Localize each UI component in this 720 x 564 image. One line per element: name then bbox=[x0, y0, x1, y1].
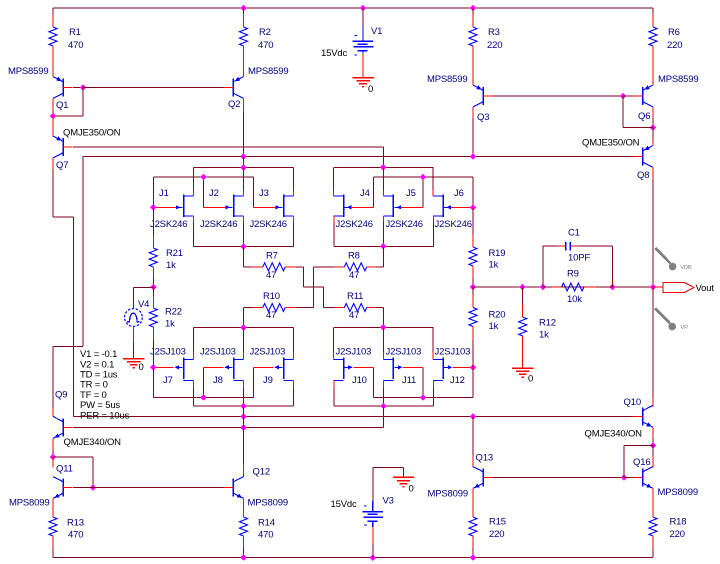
svg-text:220: 220 bbox=[667, 40, 682, 51]
JFET J11 J2SJ103 (mirrored) bbox=[392, 358, 394, 380]
transistor Q13 MPS8099 bbox=[472, 416, 474, 455]
svg-text:MPS8599: MPS8599 bbox=[427, 74, 467, 85]
node left source bus / R7 bbox=[240, 243, 247, 250]
resistor R14 470 bbox=[240, 517, 248, 536]
resistor R22 1k bbox=[152, 287, 154, 296]
svg-text:R12: R12 bbox=[539, 318, 556, 329]
wire J7 drain riser bbox=[193, 352, 195, 359]
svg-text:R19: R19 bbox=[489, 248, 506, 259]
svg-text:10PF: 10PF bbox=[568, 253, 590, 264]
svg-text:R13: R13 bbox=[67, 518, 84, 529]
wire J11 drain riser bbox=[382, 352, 384, 359]
node right P gate bus J11 riser bbox=[420, 394, 427, 401]
resistor R10 47 bbox=[243, 308, 245, 328]
svg-text:QMJE350/ON: QMJE350/ON bbox=[63, 128, 121, 139]
svg-text:Vout: Vout bbox=[696, 283, 715, 294]
svg-text:47: 47 bbox=[266, 270, 276, 281]
svg-text:QMJE340/ON: QMJE340/ON bbox=[585, 429, 643, 440]
svg-text:V4: V4 bbox=[138, 299, 149, 310]
wire J4 drain riser bbox=[333, 167, 335, 196]
node top rail / V1 junction bbox=[360, 5, 367, 12]
node wire B / Q2 collector bbox=[240, 153, 247, 160]
svg-text:1k: 1k bbox=[165, 319, 175, 330]
resistor R8 47 bbox=[314, 266, 334, 268]
svg-text:J2: J2 bbox=[209, 188, 219, 199]
node C1/R9 right bbox=[609, 284, 616, 291]
voltage source V3 15Vdc bbox=[372, 468, 374, 502]
wire B horizontal Q8 base line bbox=[83, 156, 633, 158]
JFET J9 J2SJ103 bbox=[283, 358, 285, 380]
node R19/R20 output wire junction bbox=[470, 284, 477, 291]
wire J2 source riser bbox=[243, 216, 245, 222]
node right gate bus J5 riser bbox=[420, 174, 427, 181]
svg-text:1k: 1k bbox=[489, 260, 499, 271]
wire J6 gate bbox=[451, 206, 473, 208]
wire output feedback line bbox=[473, 286, 653, 288]
wire left N-JFET drain bus bbox=[194, 166, 294, 168]
transistor Q2 MPS8599 bbox=[232, 79, 234, 97]
svg-text:1k: 1k bbox=[166, 260, 176, 271]
svg-text:C1: C1 bbox=[568, 228, 580, 239]
wire V3 to ground bbox=[373, 467, 404, 469]
svg-text:10k: 10k bbox=[567, 294, 582, 305]
wire J9 drain riser bbox=[292, 352, 294, 359]
svg-text:QMJE340/ON: QMJE340/ON bbox=[64, 437, 122, 448]
port Vout bbox=[663, 283, 694, 293]
wire link wire B to left drain bus bbox=[243, 157, 245, 168]
resistor R13 470 bbox=[49, 517, 57, 536]
node Vout junction bbox=[650, 284, 657, 291]
pulse source V4 bbox=[124, 309, 142, 327]
wire A Q7 base to right JFET drain bus bbox=[73, 146, 384, 148]
node right source bus / R8 bbox=[380, 243, 387, 250]
node top rail / R2 junction bbox=[240, 5, 247, 12]
svg-text:Q9: Q9 bbox=[55, 390, 67, 401]
svg-text:J2SK246: J2SK246 bbox=[150, 219, 187, 230]
node left gate bus J2 riser bbox=[200, 174, 207, 181]
wire Q1 base-collector tie box bbox=[82, 88, 84, 116]
svg-text:VP: VP bbox=[680, 325, 688, 331]
wire right N-JFET drain bus bbox=[334, 166, 434, 168]
transistor Q8 QMJE350/ON bbox=[652, 127, 654, 140]
node C1/R9 left bbox=[540, 284, 547, 291]
node J1 gate / R21 junction bbox=[150, 204, 157, 211]
wire Q9 emitter down bbox=[52, 438, 54, 450]
wire J4 source riser bbox=[333, 216, 335, 222]
wire right P drain bus bbox=[334, 326, 434, 328]
svg-text:Q1: Q1 bbox=[56, 100, 68, 111]
wire Q10 emitter down bbox=[652, 427, 654, 438]
wire J1 gate bbox=[153, 206, 176, 208]
JFET J5 J2SK246 (mirrored) bbox=[392, 195, 394, 218]
wire left N source bus bbox=[194, 245, 294, 247]
svg-text:220: 220 bbox=[487, 40, 502, 51]
wire J3 source riser bbox=[293, 216, 295, 222]
svg-text:Q7: Q7 bbox=[56, 160, 68, 171]
svg-text:V3: V3 bbox=[383, 496, 394, 507]
svg-text:J9: J9 bbox=[263, 375, 273, 386]
transistor Q6 MPS8599 bbox=[642, 87, 644, 105]
wire Q3 base to Q6 base bbox=[493, 95, 623, 97]
svg-text:J2SJ103: J2SJ103 bbox=[336, 347, 372, 358]
wire C1 branch bbox=[542, 246, 544, 287]
svg-text:Q16: Q16 bbox=[633, 457, 650, 468]
resistor R6 bbox=[652, 8, 654, 14]
node bottom rail / R15 bbox=[470, 554, 477, 561]
wire J1 source riser bbox=[193, 216, 195, 222]
svg-text:R21: R21 bbox=[166, 248, 183, 259]
node Q6 collector junction bbox=[650, 124, 657, 131]
svg-text:J2SJ103: J2SJ103 bbox=[150, 347, 186, 358]
JFET J4 J2SK246 (mirrored) bbox=[343, 195, 345, 218]
wire top supply rail bbox=[53, 7, 653, 9]
wire J10 gate bbox=[354, 366, 374, 368]
wire J2 drain riser bbox=[243, 167, 245, 196]
wire J7 gate bbox=[153, 366, 173, 368]
node right P drain bus / R11 bbox=[380, 324, 387, 331]
svg-text:15Vdc: 15Vdc bbox=[321, 48, 347, 59]
ground 0 below V4 bbox=[123, 358, 144, 360]
wire Q11 emitter to R13 bbox=[52, 499, 54, 518]
svg-text:R1: R1 bbox=[69, 27, 81, 38]
wire J3 gate bbox=[253, 206, 275, 208]
JFET J1 J2SK246 bbox=[183, 195, 185, 218]
wire B left vertical from node bbox=[82, 157, 84, 347]
svg-text:QMJE350/ON: QMJE350/ON bbox=[582, 138, 640, 149]
node left P source bus riser bbox=[240, 403, 247, 410]
node y416 / Q12 riser bbox=[240, 413, 247, 420]
svg-text:R10: R10 bbox=[263, 291, 280, 302]
wire Q6 base-collector tie box bbox=[622, 96, 624, 127]
transistor Q1 MPS8599 bbox=[62, 79, 64, 97]
wire J5 source riser bbox=[382, 216, 384, 222]
node y416 / Q13 collector bbox=[470, 413, 477, 420]
wire left P gate bus bbox=[152, 367, 154, 397]
svg-text:J2SJ103: J2SJ103 bbox=[386, 347, 422, 358]
svg-text:R18: R18 bbox=[670, 517, 687, 528]
wire J10 source riser bbox=[333, 381, 335, 389]
svg-text:J2SJ103: J2SJ103 bbox=[200, 347, 236, 358]
wire J11 source riser bbox=[382, 381, 384, 389]
resistor R7 47 bbox=[243, 246, 245, 266]
wire right P gate bus bbox=[472, 367, 474, 397]
svg-text:MPS8599: MPS8599 bbox=[658, 74, 698, 85]
transistor Q9 QMJE340/ON bbox=[52, 408, 54, 417]
wire right N source bus bbox=[334, 245, 434, 247]
svg-text:R8: R8 bbox=[348, 251, 360, 262]
wire J12 drain riser bbox=[432, 352, 434, 359]
wire stub to Vout port bbox=[653, 286, 663, 288]
node Q9 base rail / Q12 riser bbox=[240, 424, 247, 431]
ground 0 below V1 bbox=[352, 77, 373, 79]
svg-text:220: 220 bbox=[670, 529, 685, 540]
wire J8 drain riser bbox=[243, 352, 245, 359]
svg-text:R15: R15 bbox=[489, 517, 506, 528]
svg-text:J4: J4 bbox=[360, 188, 370, 199]
node J6 gate / R19 junction bbox=[470, 204, 477, 211]
voltage source V1 15Vdc bbox=[362, 8, 364, 26]
node R12 top bbox=[519, 284, 526, 291]
node Q16 base junction bbox=[621, 474, 628, 481]
wire Q6 collector bbox=[652, 107, 654, 118]
resistor R2 bbox=[243, 8, 245, 14]
svg-text:470: 470 bbox=[68, 40, 83, 51]
transistor Q7 QMJE350/ON bbox=[52, 116, 54, 137]
wire left P source bus bbox=[194, 405, 294, 407]
svg-text:470: 470 bbox=[258, 40, 273, 51]
wire J12 source riser bbox=[433, 381, 435, 389]
transistor Q10 QMJE340/ON (mirrored) bbox=[652, 287, 654, 398]
svg-text:Q11: Q11 bbox=[56, 464, 73, 475]
svg-text:J2SK246: J2SK246 bbox=[200, 219, 237, 230]
wire J12 gate bbox=[453, 366, 473, 368]
JFET J7 J2SJ103 bbox=[183, 358, 185, 380]
svg-text:J2SK246: J2SK246 bbox=[386, 219, 423, 230]
svg-text:47: 47 bbox=[349, 270, 359, 281]
transistor Q11 MPS8099 bbox=[52, 457, 54, 467]
node Q1 base junction bbox=[80, 84, 87, 91]
resistor R18 220 bbox=[649, 517, 657, 536]
node V4 / R21 / R22 junction bbox=[150, 284, 157, 291]
svg-text:J2SK246: J2SK246 bbox=[336, 219, 373, 230]
node left P gate bus J8 riser bbox=[200, 394, 207, 401]
svg-text:MPS8099: MPS8099 bbox=[9, 498, 49, 509]
node top rail / R3 junction bbox=[470, 5, 477, 12]
svg-text:15Vdc: 15Vdc bbox=[331, 499, 357, 510]
wire Q16 tie box bbox=[624, 445, 653, 447]
JFET J10 J2SJ103 (mirrored) bbox=[343, 358, 345, 380]
svg-text:J7: J7 bbox=[163, 375, 173, 386]
svg-text:220: 220 bbox=[489, 529, 504, 540]
JFET J3 J2SK246 bbox=[283, 195, 285, 218]
wire J2 gate bbox=[203, 206, 226, 208]
wire J5 drain riser bbox=[382, 167, 384, 196]
ground 0 near V3 bbox=[393, 476, 414, 478]
wire J8 gate bbox=[203, 366, 223, 368]
svg-text:PER = 10us: PER = 10us bbox=[80, 410, 130, 421]
wire J9 source riser bbox=[293, 381, 295, 389]
wire J9 gate bbox=[253, 366, 273, 368]
capacitor C1 10PF bbox=[565, 242, 567, 251]
wire Q13 base to Q16 base bbox=[493, 477, 624, 479]
svg-text:0: 0 bbox=[528, 374, 533, 385]
wire Q9 base rail bbox=[73, 426, 384, 428]
wire Q13 emitter to R15 bbox=[472, 489, 474, 518]
wire J7 source riser bbox=[193, 381, 195, 389]
wire Q1 collector bbox=[52, 99, 54, 111]
wire crisscross R10 to R8 bbox=[313, 267, 315, 308]
node J12 gate / R20 junction bbox=[470, 364, 477, 371]
node left drain bus junction bbox=[240, 164, 247, 171]
svg-text:J10: J10 bbox=[352, 375, 367, 386]
svg-text:Q12: Q12 bbox=[253, 467, 270, 478]
probe VP marker bbox=[655, 308, 670, 323]
svg-text:Q8: Q8 bbox=[637, 170, 649, 181]
wire J4 gate bbox=[351, 206, 373, 208]
wire Q11 base to Q12 base bbox=[73, 487, 224, 489]
wire Q1 base to Q2 base bbox=[83, 87, 224, 89]
node bottom rail / V3 bbox=[370, 554, 377, 561]
node Q9 emitter / Q11 collector bbox=[50, 454, 57, 461]
svg-text:J3: J3 bbox=[259, 188, 269, 199]
resistor R11 47 bbox=[324, 307, 334, 309]
JFET J12 J2SJ103 (mirrored) bbox=[442, 358, 444, 380]
wire right P source bus bbox=[334, 405, 434, 407]
resistor R19 1k bbox=[472, 207, 474, 235]
wire J8 source riser bbox=[243, 381, 245, 389]
svg-text:R14: R14 bbox=[258, 518, 275, 529]
svg-text:MPS8599: MPS8599 bbox=[8, 66, 48, 77]
ground 0 below R12 bbox=[512, 367, 533, 369]
wire J6 source riser bbox=[433, 216, 435, 222]
svg-text:J8: J8 bbox=[213, 375, 223, 386]
svg-text:J2SK246: J2SK246 bbox=[435, 219, 472, 230]
node left P drain bus / R10 bbox=[240, 324, 247, 331]
node wire B / Q3 collector bbox=[470, 153, 477, 160]
wire J5 gate bbox=[401, 206, 423, 208]
resistor R21 1k bbox=[152, 207, 154, 235]
svg-text:1k: 1k bbox=[489, 321, 499, 332]
svg-text:R2: R2 bbox=[259, 27, 271, 38]
wire crisscross R7 to R11 bbox=[302, 267, 304, 287]
wire J1 drain riser bbox=[193, 167, 195, 196]
resistor R12 1k bbox=[522, 287, 524, 303]
svg-text:MPS8599: MPS8599 bbox=[248, 66, 288, 77]
svg-text:J11: J11 bbox=[402, 375, 416, 386]
svg-text:R20: R20 bbox=[489, 310, 506, 321]
svg-text:J6: J6 bbox=[454, 188, 464, 199]
svg-text:Q2: Q2 bbox=[228, 99, 240, 110]
resistor R3 bbox=[472, 8, 474, 14]
svg-text:J1: J1 bbox=[159, 188, 169, 199]
svg-text:470: 470 bbox=[68, 530, 83, 541]
wire right N gate bus bbox=[374, 176, 474, 178]
svg-text:Q10: Q10 bbox=[624, 397, 641, 408]
wire V4 to ground bbox=[133, 326, 135, 342]
svg-text:47: 47 bbox=[266, 310, 276, 321]
svg-text:R6: R6 bbox=[668, 27, 680, 38]
node Q6 base junction bbox=[620, 93, 627, 100]
wire y416 Q7-collector rail to Q10 base bbox=[74, 415, 634, 417]
JFET J2 J2SK246 bbox=[233, 195, 235, 218]
transistor Q12 MPS8099 (mirrored) bbox=[232, 479, 234, 497]
wire V4 branch bbox=[134, 287, 154, 289]
JFET J8 J2SJ103 bbox=[233, 358, 235, 380]
node Q10 emitter / Q16 collector bbox=[650, 442, 657, 449]
wire Q12 emitter to R14 bbox=[243, 499, 245, 518]
wire Q11 tie box bbox=[53, 456, 93, 458]
svg-text:47: 47 bbox=[349, 310, 359, 321]
transistor Q16 MPS8099 (mirrored) bbox=[652, 446, 654, 457]
svg-text:R9: R9 bbox=[567, 269, 579, 280]
svg-text:V1: V1 bbox=[371, 26, 382, 37]
wire bottom supply rail bbox=[53, 557, 653, 559]
node bottom rail / R14 bbox=[240, 554, 247, 561]
svg-text:J2SJ103: J2SJ103 bbox=[435, 347, 471, 358]
svg-text:0: 0 bbox=[409, 484, 414, 495]
wire J3 drain riser bbox=[292, 167, 294, 196]
JFET J6 J2SK246 (mirrored) bbox=[442, 195, 444, 218]
wire Q12 collector riser bbox=[243, 406, 245, 427]
svg-text:R3: R3 bbox=[488, 27, 500, 38]
resistor R20 1k bbox=[472, 287, 474, 295]
wire Q3 collector down to wire B bbox=[472, 107, 474, 118]
probe VDB marker bbox=[655, 248, 670, 263]
svg-text:J12: J12 bbox=[450, 375, 465, 386]
node J7 gate / R22 junction bbox=[150, 364, 157, 371]
wire J10 drain riser bbox=[333, 352, 335, 359]
svg-text:R22: R22 bbox=[165, 307, 182, 318]
svg-text:R7: R7 bbox=[266, 251, 278, 262]
resistor R9 10k bbox=[543, 286, 552, 288]
svg-text:VDB: VDB bbox=[680, 265, 692, 271]
svg-text:J2SJ103: J2SJ103 bbox=[250, 347, 286, 358]
svg-text:Q6: Q6 bbox=[638, 111, 650, 122]
svg-text:Q13: Q13 bbox=[476, 453, 493, 464]
wire Q16 emitter to R18 bbox=[652, 489, 654, 518]
svg-text:J2SK246: J2SK246 bbox=[250, 219, 287, 230]
svg-text:J5: J5 bbox=[406, 188, 416, 199]
node Q1 collector junction bbox=[50, 113, 57, 120]
wire left P drain bus bbox=[194, 326, 294, 328]
svg-text:R11: R11 bbox=[347, 291, 363, 302]
wire J11 gate bbox=[403, 366, 423, 368]
wire Q2 collector down to wire B bbox=[243, 99, 245, 113]
svg-text:MPS8099: MPS8099 bbox=[658, 487, 698, 498]
resistor R15 220 bbox=[469, 517, 477, 536]
node right P source bus riser bbox=[380, 403, 387, 410]
svg-text:470: 470 bbox=[258, 530, 273, 541]
wire Q1 base to node bbox=[73, 87, 83, 89]
resistor R1 bbox=[52, 8, 54, 14]
wire J6 drain riser bbox=[432, 167, 434, 196]
wire left N gate bus bbox=[153, 176, 253, 178]
svg-text:Q3: Q3 bbox=[477, 112, 489, 123]
transistor Q3 MPS8599 bbox=[482, 87, 484, 105]
node right drain bus junction J5 drain bbox=[380, 164, 387, 171]
svg-text:MPS8099: MPS8099 bbox=[248, 498, 288, 509]
svg-text:1k: 1k bbox=[539, 330, 549, 341]
wire Q7 collector down-jog bbox=[52, 158, 54, 170]
node Q11 base junction bbox=[90, 484, 97, 491]
svg-text:0: 0 bbox=[139, 362, 144, 373]
svg-text:0: 0 bbox=[368, 84, 373, 95]
svg-text:MPS8099: MPS8099 bbox=[428, 488, 468, 499]
wire Q8 collector down to output node bbox=[652, 168, 654, 181]
